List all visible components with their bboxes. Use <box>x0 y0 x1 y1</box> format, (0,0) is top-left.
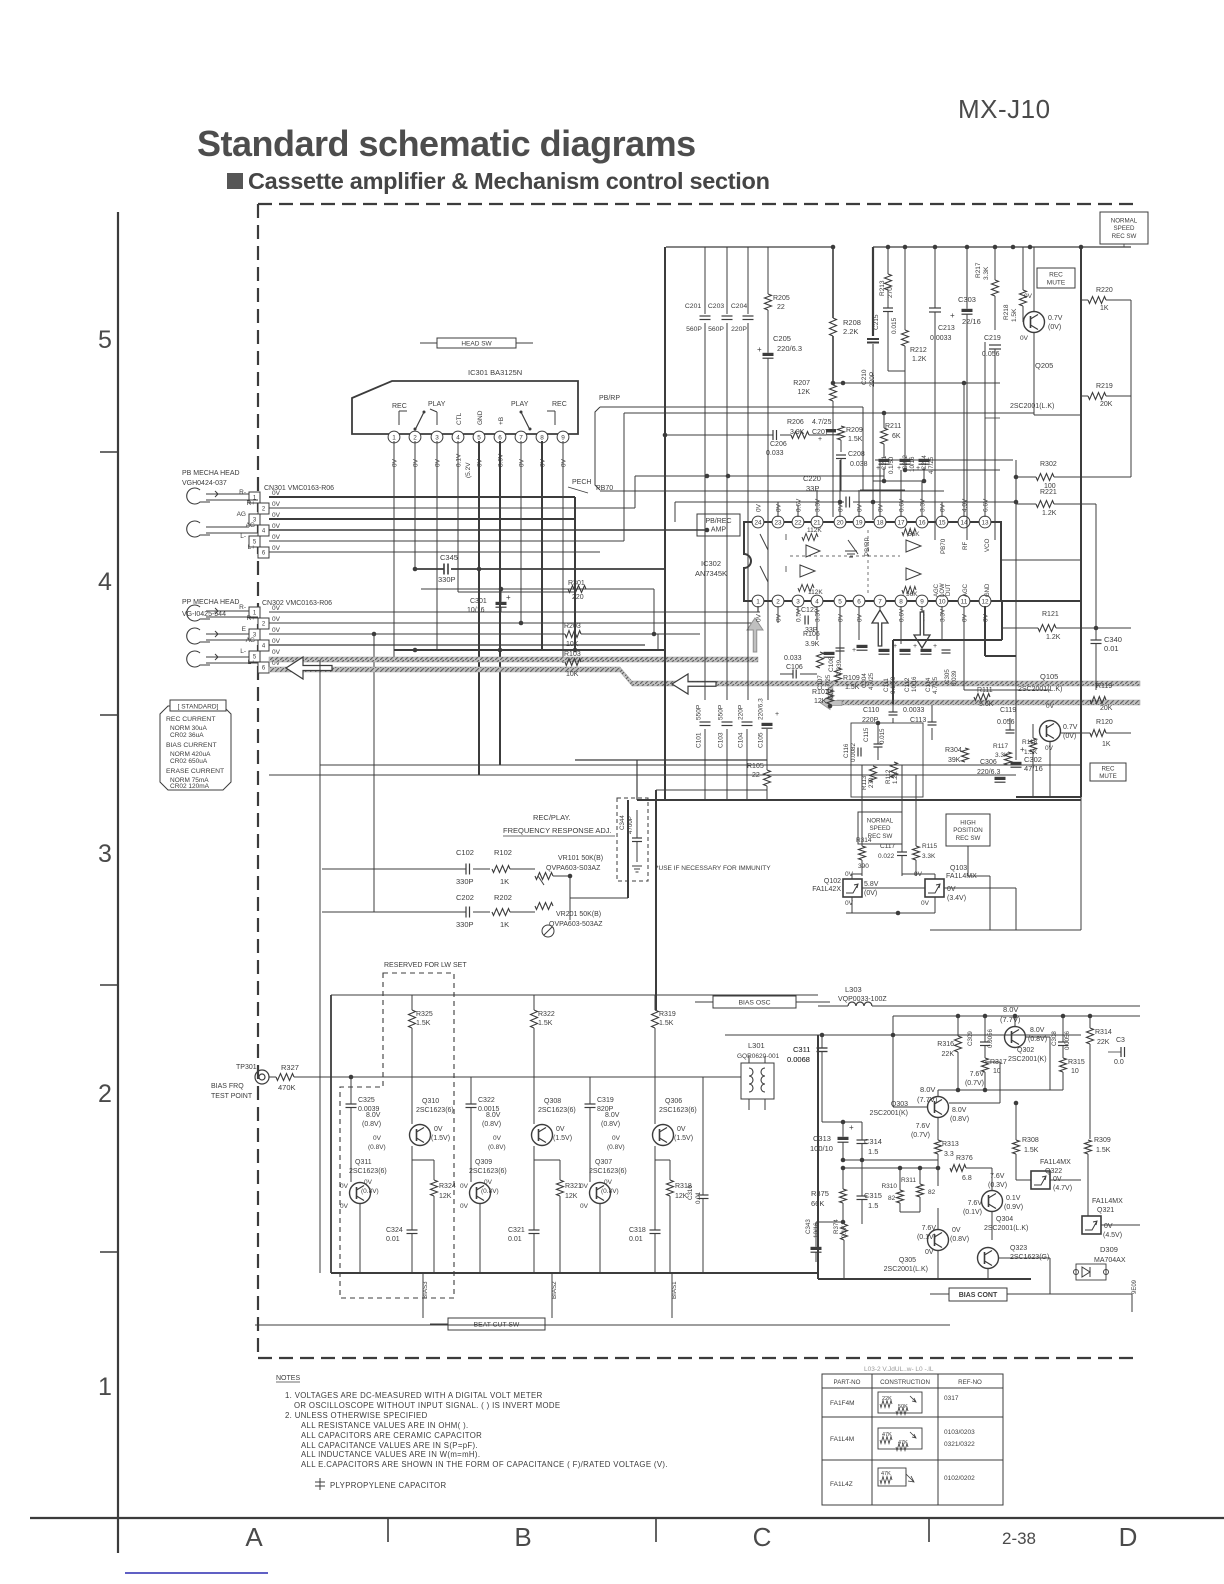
svg-text:R119: R119 <box>1096 683 1112 690</box>
wire IC301 pin 3 drop <box>436 441 438 650</box>
svg-text:7: 7 <box>519 434 523 441</box>
svg-text:C220: C220 <box>803 474 821 483</box>
IC302 internal ground <box>845 551 857 557</box>
svg-text:A: A <box>245 1522 263 1552</box>
bold bus right bottom <box>1016 796 1081 798</box>
svg-text:ALL INDUCTANCE VALUES ARE IN: ALL INDUCTANCE VALUES ARE IN W(m=mH). <box>301 1450 480 1459</box>
svg-text:R117: R117 <box>993 743 1008 750</box>
svg-text:18: 18 <box>876 519 884 526</box>
svg-text:8: 8 <box>899 598 903 605</box>
svg-text:R310: R310 <box>881 1183 897 1190</box>
IC302 pin 19 <box>853 516 865 528</box>
svg-text:REC SW: REC SW <box>1112 233 1137 240</box>
wire row y589 <box>421 588 654 590</box>
svg-text:VCO: VCO <box>984 538 991 552</box>
svg-text:0V: 0V <box>1024 293 1033 300</box>
svg-text:10: 10 <box>938 598 946 605</box>
svg-text:0V: 0V <box>340 1183 349 1190</box>
svg-text:2SC2001(L.K): 2SC2001(L.K) <box>1010 403 1054 410</box>
connector CN302 pin 1 <box>249 607 260 618</box>
svg-text:+: + <box>876 465 880 472</box>
wire long y775 <box>269 774 1016 776</box>
IC302 internal dashed <box>790 555 900 557</box>
wire bias row y1016 <box>893 1015 1140 1017</box>
capacitor C101 <box>700 721 711 723</box>
connector CN301 pin 3 <box>249 514 260 525</box>
svg-text:R112: R112 <box>885 769 892 784</box>
svg-text:4.7/25: 4.7/25 <box>868 672 875 690</box>
left border tick 4 <box>100 1251 118 1253</box>
capacitor C322 <box>466 1103 477 1105</box>
svg-text:C123: C123 <box>801 607 818 614</box>
svg-text:2SC2001(L.K): 2SC2001(L.K) <box>984 1225 1028 1232</box>
shielded bus lower <box>269 667 620 672</box>
wire q205 bottom run <box>1034 414 1081 416</box>
IC302 pin 2 <box>772 595 784 607</box>
svg-text:4: 4 <box>815 598 819 605</box>
svg-text:270: 270 <box>868 777 875 788</box>
bold vert 637 <box>636 760 638 800</box>
Q205 part label line <box>985 417 1000 419</box>
standard current note box <box>160 706 231 790</box>
svg-text:HIGH: HIGH <box>960 819 975 826</box>
svg-text:3.3K: 3.3K <box>922 853 936 860</box>
svg-text:R220: R220 <box>1096 287 1113 294</box>
wire IC302 pin7 down <box>879 606 881 644</box>
svg-text:Standard schematic diagrams: Standard schematic diagrams <box>197 123 696 164</box>
NORMAL SPEED REC SW box mid <box>858 812 902 844</box>
svg-text:(1.5V): (1.5V) <box>553 1135 572 1142</box>
svg-text:4: 4 <box>456 434 460 441</box>
svg-text:GQR0620-001: GQR0620-001 <box>737 1053 780 1060</box>
wire PB head L to CN301 <box>206 526 249 528</box>
svg-text:0V: 0V <box>484 1179 493 1186</box>
svg-text:C314: C314 <box>864 1137 882 1146</box>
svg-text:PART-NO: PART-NO <box>834 1379 861 1386</box>
svg-text:19: 19 <box>855 519 863 526</box>
svg-text:4.7/25: 4.7/25 <box>812 419 832 426</box>
svg-text:C203: C203 <box>708 303 724 310</box>
svg-text:OR OSCILLOSCOPE WITHOUT INPUT: OR OSCILLOSCOPE WITHOUT INPUT SIGNAL. ( … <box>294 1401 560 1410</box>
bold L wires right of IC302 <box>892 640 894 704</box>
svg-text:C114: C114 <box>925 677 932 692</box>
svg-text:(4.7V): (4.7V) <box>1053 1185 1072 1192</box>
wire beat cut row <box>255 1324 950 1326</box>
svg-text:IC302: IC302 <box>701 559 721 568</box>
BEAT CUT SW label box <box>448 1318 545 1330</box>
svg-text:C343: C343 <box>805 1219 812 1234</box>
svg-text:10/16: 10/16 <box>911 676 918 692</box>
svg-text:R324: R324 <box>439 1183 456 1190</box>
svg-text:FA1L4M: FA1L4M <box>830 1436 854 1443</box>
svg-text:(0.8V): (0.8V) <box>488 1144 506 1151</box>
svg-text:0V: 0V <box>857 613 864 622</box>
svg-text:MA704AX: MA704AX <box>1094 1257 1126 1264</box>
svg-text:550P: 550P <box>718 705 725 720</box>
IC302 pin 6 <box>853 595 865 607</box>
svg-text:AG: AG <box>246 522 255 529</box>
svg-text:R219: R219 <box>1096 383 1113 390</box>
svg-text:12K: 12K <box>814 698 827 705</box>
svg-text:0102/0202: 0102/0202 <box>944 1475 975 1482</box>
svg-text:+: + <box>852 647 856 654</box>
svg-text:+B: +B <box>498 417 505 425</box>
svg-text:(0.8V): (0.8V) <box>950 1116 969 1123</box>
svg-text:0V: 0V <box>838 613 845 622</box>
svg-text:2: 2 <box>413 434 417 441</box>
capacitor C305 <box>942 649 951 651</box>
svg-text:0V: 0V <box>413 458 420 467</box>
svg-text:0.038: 0.038 <box>850 461 868 468</box>
svg-text:0321/0322: 0321/0322 <box>944 1441 975 1448</box>
svg-text:QVPA603-S03AZ: QVPA603-S03AZ <box>546 865 601 872</box>
svg-text:R314: R314 <box>1095 1029 1112 1036</box>
svg-text:Q105: Q105 <box>1040 672 1058 681</box>
wire IC301 pin 9 drop <box>562 441 564 663</box>
svg-text:3: 3 <box>435 434 439 441</box>
wire down from swbox <box>967 846 969 876</box>
svg-text:R218: R218 <box>1003 304 1010 320</box>
svg-text:22: 22 <box>794 519 802 526</box>
wire vert 320 long <box>319 660 321 1273</box>
svg-text:1: 1 <box>392 434 396 441</box>
svg-text:0V: 0V <box>272 627 281 634</box>
svg-text:0.7V: 0.7V <box>1063 724 1078 731</box>
svg-text:1: 1 <box>756 598 760 605</box>
svg-text:1.5K: 1.5K <box>1096 1147 1111 1154</box>
svg-text:220P: 220P <box>731 326 747 333</box>
IC301 pin 5 <box>473 431 485 443</box>
svg-text:NORMAL: NORMAL <box>867 817 894 824</box>
svg-text:C301: C301 <box>470 598 487 605</box>
svg-text:(0.8V): (0.8V) <box>950 1236 969 1243</box>
parts table outline <box>822 1374 1003 1505</box>
bold bus y806 <box>637 799 1081 801</box>
svg-text:1.2K: 1.2K <box>1042 510 1057 517</box>
IC302 pin 20 <box>834 516 846 528</box>
svg-text:Q102: Q102 <box>824 878 841 885</box>
svg-text:CTL: CTL <box>456 412 463 425</box>
svg-text:D309: D309 <box>1100 1245 1118 1254</box>
wire IC302 pin17 up <box>900 470 902 517</box>
svg-text:PLAY: PLAY <box>511 401 529 408</box>
wire bottom verticals <box>422 1273 424 1318</box>
svg-text:Q311: Q311 <box>355 1159 372 1166</box>
svg-text:PP MECHA HEAD: PP MECHA HEAD <box>182 599 239 606</box>
svg-text:330P: 330P <box>456 877 474 886</box>
dashed schematic border top <box>258 203 1140 205</box>
REC MUTE label box 2 <box>1090 763 1126 781</box>
IC302 pin 5 <box>834 595 846 607</box>
svg-text:8.0V: 8.0V <box>486 1112 501 1119</box>
shielded bus arrow <box>286 657 332 679</box>
svg-text:0.0033: 0.0033 <box>930 335 952 342</box>
svg-text:(0.9V): (0.9V) <box>1004 1204 1023 1211</box>
svg-text:1.5K: 1.5K <box>845 684 860 691</box>
svg-text:Q307: Q307 <box>595 1159 612 1166</box>
svg-text:D: D <box>1119 1522 1138 1552</box>
svg-text:QVPA603-503AZ: QVPA603-503AZ <box>549 921 603 928</box>
svg-text:0V: 0V <box>272 638 281 645</box>
svg-text:R103: R103 <box>564 651 581 658</box>
svg-text:GND: GND <box>985 583 991 597</box>
svg-text:4.7/25: 4.7/25 <box>932 676 939 694</box>
svg-text:BIAS OSC: BIAS OSC <box>738 999 770 1006</box>
svg-text:82: 82 <box>928 1189 936 1196</box>
IC302 internal amp 3 <box>906 540 921 552</box>
IC302 pin 21 <box>811 516 823 528</box>
svg-text:E: E <box>242 626 247 633</box>
IC301 pin 1 <box>388 431 400 443</box>
wire IC302 pin8 down <box>900 606 902 644</box>
svg-text:2: 2 <box>98 1080 112 1108</box>
svg-text:R102: R102 <box>494 848 512 857</box>
svg-text:FA1L4Z: FA1L4Z <box>830 1481 853 1488</box>
svg-text:5.8V: 5.8V <box>864 881 879 888</box>
transistor Q306 <box>653 1125 674 1146</box>
svg-text:1.2K: 1.2K <box>912 356 927 363</box>
svg-text:C345: C345 <box>440 553 458 562</box>
svg-text:C321: C321 <box>508 1227 525 1234</box>
svg-text:B: B <box>514 1522 531 1552</box>
svg-text:3: 3 <box>98 840 112 868</box>
wire vert 863 <box>862 407 864 491</box>
svg-text:0V: 0V <box>272 545 281 552</box>
svg-text:0V: 0V <box>272 534 281 541</box>
svg-text:10K: 10K <box>566 641 579 648</box>
svg-text:C219: C219 <box>984 335 1001 342</box>
svg-text:6.6V: 6.6V <box>983 498 990 512</box>
svg-text:C104: C104 <box>738 732 745 748</box>
svg-text:R209: R209 <box>846 427 863 434</box>
op IC301 outline <box>352 381 578 434</box>
reserved dashed box <box>340 973 454 1298</box>
svg-text:(7.7V): (7.7V) <box>1000 1015 1021 1024</box>
svg-text:12: 12 <box>981 598 989 605</box>
svg-text:REC SW: REC SW <box>956 835 981 842</box>
svg-text:100/10: 100/10 <box>810 1144 833 1153</box>
svg-text:0.0068: 0.0068 <box>787 1055 810 1064</box>
svg-text:FA1F4M: FA1F4M <box>830 1400 855 1407</box>
svg-text:1.5K: 1.5K <box>848 436 863 443</box>
wire mid horizontals right <box>875 459 1013 461</box>
svg-text:(0.7V): (0.7V) <box>911 1132 930 1139</box>
bottom tick C-D <box>928 1518 930 1542</box>
svg-text:C110: C110 <box>863 707 879 714</box>
svg-text:0.01: 0.01 <box>508 1236 522 1243</box>
wire y388 run <box>665 382 833 384</box>
svg-text:(0.8V): (0.8V) <box>601 1188 619 1195</box>
svg-text:PLAY: PLAY <box>428 401 446 408</box>
svg-text:R115: R115 <box>922 843 937 850</box>
svg-text:1.2K: 1.2K <box>1046 634 1061 641</box>
svg-text:1.5K: 1.5K <box>1011 308 1018 322</box>
svg-text:R+: R+ <box>247 500 256 507</box>
svg-text:MUTE: MUTE <box>1047 279 1066 286</box>
svg-text:20K: 20K <box>1100 705 1113 712</box>
IC302 pin 16 <box>916 516 928 528</box>
PP head shield L <box>187 651 210 667</box>
wire q303 connections <box>893 1106 927 1108</box>
svg-text:8.0V: 8.0V <box>366 1112 381 1119</box>
svg-text:1.5K: 1.5K <box>416 1020 431 1027</box>
wire IC302 pin19 up <box>858 490 860 517</box>
svg-text:C344: C344 <box>619 815 626 830</box>
svg-text:7.6V: 7.6V <box>922 1225 937 1232</box>
svg-text:8: 8 <box>540 434 544 441</box>
svg-text:220/6.3: 220/6.3 <box>777 344 802 353</box>
wire PB head R to CN301 <box>206 493 249 495</box>
IC301 pin 8 <box>536 431 548 443</box>
svg-text:6K: 6K <box>892 433 901 440</box>
svg-text:PB MECHA HEAD: PB MECHA HEAD <box>182 470 240 477</box>
svg-text:C103: C103 <box>718 732 725 748</box>
svg-text:0V: 0V <box>878 503 885 512</box>
wire vert 635 <box>634 476 636 508</box>
svg-text:0V: 0V <box>392 458 399 467</box>
svg-text:C111: C111 <box>883 678 890 692</box>
svg-text:5: 5 <box>838 598 842 605</box>
IC302 pin 23 <box>772 516 784 528</box>
svg-text:C205: C205 <box>773 334 791 343</box>
svg-text:(7.7V): (7.7V) <box>917 1095 938 1104</box>
capacitor C321 <box>529 1229 540 1231</box>
PB head shield R <box>187 488 210 504</box>
svg-text:PB/RP: PB/RP <box>599 395 620 402</box>
svg-text:0.015: 0.015 <box>891 317 898 334</box>
svg-text:C213: C213 <box>938 325 955 332</box>
connector CN301 pin 5 <box>249 536 260 547</box>
svg-text:0V: 0V <box>962 613 969 622</box>
IC302 internal switches <box>760 534 768 550</box>
svg-text:PECH: PECH <box>572 479 591 486</box>
wire IC302 pin21 up <box>816 490 818 517</box>
svg-text:C325: C325 <box>358 1097 375 1104</box>
svg-text:24: 24 <box>754 519 762 526</box>
svg-text:0V: 0V <box>940 503 947 512</box>
svg-text:1K: 1K <box>1100 305 1109 312</box>
svg-text:1.5: 1.5 <box>868 1201 878 1210</box>
resistor R113 <box>870 766 877 782</box>
svg-text:2-38: 2-38 <box>1002 1529 1036 1548</box>
svg-text:R121: R121 <box>1042 611 1059 618</box>
svg-text:330P: 330P <box>438 575 456 584</box>
svg-text:470K: 470K <box>278 1083 296 1092</box>
svg-text:(1.5V): (1.5V) <box>674 1135 693 1142</box>
REC MUTE label box <box>1037 268 1075 288</box>
svg-text:C119: C119 <box>1000 707 1016 714</box>
wire IC302 pin4 down <box>816 606 818 640</box>
svg-text:0.01: 0.01 <box>695 1191 702 1204</box>
svg-text:0V: 0V <box>272 523 281 530</box>
svg-text:0V: 0V <box>272 512 281 519</box>
svg-text:C113: C113 <box>910 717 926 724</box>
HEAD SW label box <box>437 338 516 348</box>
svg-text:R109: R109 <box>843 675 860 682</box>
svg-text:22/16: 22/16 <box>962 317 981 326</box>
resistor R206 body <box>791 432 809 439</box>
svg-text:+: + <box>913 643 917 650</box>
IC302 pin 11 <box>958 595 970 607</box>
svg-text:C316: C316 <box>687 1185 694 1200</box>
svg-text:+: + <box>506 593 511 602</box>
svg-text:Q306: Q306 <box>665 1098 682 1105</box>
svg-text:0V: 0V <box>580 1183 589 1190</box>
svg-text:550P: 550P <box>696 705 703 720</box>
svg-text:L+: L+ <box>248 544 256 551</box>
wire y1090 row <box>938 1089 1063 1091</box>
svg-text:8.0V: 8.0V <box>952 1107 967 1114</box>
wire CN302 row4 <box>269 644 645 646</box>
node R207 <box>841 381 846 386</box>
resistor R317 <box>982 1058 989 1072</box>
svg-text:R314: R314 <box>856 837 872 844</box>
wire bold row y569 <box>413 568 444 570</box>
IC302 pin 17 <box>895 516 907 528</box>
wire PP head rows <box>206 610 249 612</box>
wire q304 q305 links <box>937 1208 939 1229</box>
svg-text:1: 1 <box>98 1373 112 1401</box>
capacitor C319 <box>585 1103 596 1105</box>
svg-text:FA1L4MX: FA1L4MX <box>1040 1159 1071 1166</box>
svg-text:VGH0424-037: VGH0424-037 <box>182 480 227 487</box>
bottom tick A-B <box>387 1518 389 1542</box>
wire long y765 <box>320 764 1081 766</box>
svg-text:SPEED: SPEED <box>870 825 892 832</box>
svg-text:RF: RF <box>962 542 969 550</box>
wire IC302 pin2 down <box>777 606 779 623</box>
IC301 switch 1-2 <box>415 412 424 430</box>
dashed schematic border left <box>257 204 259 1358</box>
wire IC302 pin12 down <box>984 606 986 656</box>
svg-text:0V: 0V <box>519 458 526 467</box>
svg-text:220P: 220P <box>738 705 745 720</box>
IC302 pin 14 <box>958 516 970 528</box>
svg-text:3.3V: 3.3V <box>920 498 927 512</box>
svg-text:560P: 560P <box>686 326 702 333</box>
svg-text:33P: 33P <box>806 484 819 493</box>
svg-text:BIAS CURRENT: BIAS CURRENT <box>166 742 217 749</box>
wire q103 right <box>944 887 1016 889</box>
svg-text:R212: R212 <box>910 347 927 354</box>
svg-text:(0.8V): (0.8V) <box>368 1144 386 1151</box>
IC302 pin 24 <box>752 516 764 528</box>
svg-text:0V: 0V <box>925 1249 934 1256</box>
svg-text:C313: C313 <box>813 1134 831 1143</box>
svg-text:R202: R202 <box>494 893 512 902</box>
wire vert 893 bias <box>892 1016 894 1107</box>
transistor Q308 <box>532 1125 553 1146</box>
wire vert 1016 <box>1015 460 1017 760</box>
svg-text:Q205: Q205 <box>1035 361 1053 370</box>
capacitor C308 <box>1058 1041 1068 1043</box>
wire y1035 left segment <box>818 1034 893 1036</box>
IC301 pin 4 <box>452 431 464 443</box>
transistor Q323 <box>978 1248 999 1269</box>
svg-text:NORM 30uA: NORM 30uA <box>170 725 208 732</box>
svg-text:R308: R308 <box>1022 1137 1039 1144</box>
svg-text:FA1L4MX: FA1L4MX <box>1092 1198 1123 1205</box>
wire IC301 pin 8 drop <box>541 441 543 650</box>
wire IC302 pin1 down <box>757 606 759 612</box>
svg-text:ALL CAPACITORS ARE CERAMIC CAP: ALL CAPACITORS ARE CERAMIC CAPACITOR <box>301 1431 482 1440</box>
svg-text:8.0V: 8.0V <box>1030 1027 1045 1034</box>
connector CN301 pin 2 <box>258 503 269 514</box>
svg-text:0V: 0V <box>921 900 930 907</box>
svg-text:0V: 0V <box>272 490 281 497</box>
capacitor C302 <box>1011 762 1022 765</box>
svg-text:10K: 10K <box>566 671 579 678</box>
